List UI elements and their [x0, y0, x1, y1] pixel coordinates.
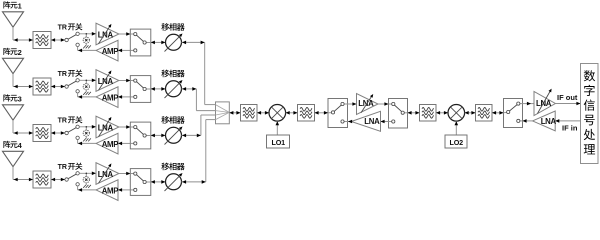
filter F8 (band-pass)	[476, 105, 493, 122]
svg-text:2: 2	[18, 48, 22, 57]
oscillator LO2	[445, 135, 467, 148]
wire: AMP A2b to TR switch SW2a	[78, 93, 96, 99]
wire: LNA A1a to switch SW1b	[119, 32, 130, 36]
wire: TR switch SW4a to LNA A4a	[79, 172, 96, 176]
svg-text:3: 3	[18, 94, 22, 103]
wire: switch SW2b to phase shifter PS2	[151, 87, 166, 91]
node: antenna label 阵元4	[3, 141, 22, 150]
wire: TR switch SW1a to LNA A1a	[79, 32, 96, 36]
op-amp AMP A2b (transmit)	[96, 87, 118, 108]
ground (row 4)	[83, 185, 91, 188]
svg-text:TR: TR	[58, 24, 67, 31]
wire: filter F3a to TR switch SW3a	[51, 131, 65, 135]
phase shifter PS4 (variable)	[165, 172, 184, 191]
filter F1a (band-pass)	[33, 32, 51, 49]
op-amp LNA A3a (variable gain)	[96, 116, 119, 138]
wire: filter F5 to mixer U6	[257, 111, 269, 115]
wire: filter F8 to switch SW7	[492, 111, 504, 115]
switch SW1a (SPDT TR switch)	[65, 32, 79, 46]
svg-text:LNA: LNA	[98, 31, 114, 40]
wire: antenna ANT4 stem	[12, 167, 14, 180]
node: label TR开关 (row 2)	[58, 70, 83, 78]
node: label TR开关 (row 1)	[58, 23, 83, 31]
wire: switch SW7 to LNA A7	[523, 102, 535, 106]
op-amp AMP A4b (transmit)	[96, 180, 118, 201]
phase shifter PS1 (variable)	[165, 32, 184, 51]
switch SW7 (SPDT)	[504, 99, 523, 128]
op-amp LNA A2a (variable gain)	[96, 70, 119, 92]
wire: LNA A5 to switch SW6	[378, 102, 389, 106]
wire: antenna ANT3 to filter F3a (bidirectional arrows)	[13, 131, 33, 135]
node: label 移相器 (row 4)	[161, 163, 184, 171]
wire: LNA A8 to switch SW7	[523, 119, 533, 123]
wire: TR switch SW2a to LNA A2a	[79, 79, 96, 83]
node: label 移相器 (row 3)	[161, 116, 184, 124]
wire: filter F4a to TR switch SW4a	[51, 178, 65, 182]
ground (row 1)	[83, 45, 91, 48]
svg-text:IF in: IF in	[562, 124, 578, 133]
switch SW6 (SPDT)	[389, 99, 408, 129]
op-amp LNA A6 (return path)	[351, 111, 380, 131]
wire: LNA A3a to switch SW3b	[119, 125, 130, 129]
mixer U7	[448, 105, 465, 122]
svg-text:TR: TR	[58, 117, 67, 124]
wire: antenna ANT2 to filter F2a (bidirectional arrows)	[13, 85, 33, 89]
svg-text:LNA: LNA	[98, 77, 114, 86]
svg-text:AMP: AMP	[102, 94, 119, 103]
switch SW5 (SPDT)	[328, 99, 348, 128]
wire: LNA A4a to switch SW4b	[119, 172, 130, 176]
switch SW3b (SPDT, LNA/AMP select)	[130, 122, 151, 149]
svg-text:TR: TR	[58, 164, 67, 171]
svg-text:AMP: AMP	[102, 187, 119, 196]
node: antenna label 阵元1	[3, 1, 21, 10]
svg-text:LNA: LNA	[98, 124, 114, 133]
op-amp LNA A1a (variable gain)	[96, 23, 119, 45]
wire: phase shifter PS1 to combiner (feed 1)	[182, 41, 216, 105]
wire: phase shifter PS3 to combiner (feed 3)	[182, 115, 216, 137]
switch SW1b (SPDT, LNA/AMP select)	[130, 29, 151, 56]
node: label TR开关 (row 3)	[58, 116, 83, 124]
mixer U6	[269, 105, 286, 122]
svg-text:LNA: LNA	[541, 117, 557, 126]
svg-text:1: 1	[18, 1, 22, 10]
wire: filter F2a to TR switch SW2a	[51, 85, 65, 89]
wire: switch SW4b to phase shifter PS4	[151, 180, 166, 184]
wire: filter F6 to switch SW5	[315, 111, 329, 115]
wire: antenna ANT2 stem	[12, 74, 14, 87]
op-amp AMP A1b (transmit)	[96, 40, 118, 61]
wire: AMP A3b to TR switch SW3a	[78, 140, 96, 146]
svg-text:LNA: LNA	[536, 99, 552, 108]
wire: mixer U7 to filter F8	[465, 111, 476, 115]
wire: antenna ANT1 to filter F1a (bidirectional arrows)	[13, 38, 33, 42]
phase shifter PS2 (variable)	[165, 79, 184, 98]
wire: switch SW4b to AMP A4b	[118, 188, 130, 192]
svg-text:AMP: AMP	[102, 47, 119, 56]
antenna ANT2	[3, 58, 24, 73]
svg-text:LNA: LNA	[364, 117, 380, 126]
wire: LNA A7 to DSP (IF out)	[555, 102, 580, 106]
node: antenna label 阵元3	[3, 94, 21, 103]
filter F6 (band-pass)	[298, 105, 315, 122]
phase shifter PS3 (variable)	[165, 125, 184, 144]
wire: combiner U5 to filter F5	[229, 111, 240, 115]
wire: mixer U6 to filter F6	[286, 111, 298, 115]
wire: DSP to LNA A8 (IF in)	[555, 119, 580, 123]
filter F5 (band-pass)	[241, 105, 258, 122]
wire: LNA A2a to switch SW2b	[119, 79, 130, 83]
node: label 移相器 (row 1)	[161, 23, 184, 31]
wire: LNA A6 to switch SW5	[348, 120, 353, 124]
node: label 移相器 (row 2)	[161, 70, 184, 78]
wire: antenna ANT3 stem	[12, 120, 14, 133]
svg-text:LNA: LNA	[358, 99, 374, 108]
node: label TR开关 (row 4)	[58, 163, 83, 171]
wire: TR switch SW3a to LNA A3a	[79, 125, 96, 129]
ground (row 3)	[83, 138, 91, 141]
svg-text:TR: TR	[58, 71, 67, 78]
switch SW2a (SPDT TR switch)	[65, 79, 79, 93]
wire: switch SW2b to AMP A2b	[118, 95, 130, 99]
switch SW4b (SPDT, LNA/AMP select)	[130, 169, 151, 196]
wire: AMP A1b to TR switch SW1a	[78, 47, 96, 53]
limiter D4 to ground	[83, 173, 89, 186]
svg-text:AMP: AMP	[102, 140, 119, 149]
wire: switch SW3b to phase shifter PS3	[151, 134, 166, 138]
wire: antenna ANT4 to filter F4a (bidirectional arrows)	[13, 178, 33, 182]
svg-text:IF out: IF out	[557, 93, 578, 102]
wire: phase shifter PS2 to combiner (feed 2)	[182, 87, 216, 111]
antenna ANT3	[3, 105, 24, 120]
wire: switch SW3b to AMP A3b	[118, 142, 130, 146]
filter F2a (band-pass)	[33, 78, 51, 95]
wire: switch SW6 to filter F7	[408, 111, 420, 115]
wire: switch SW5 to LNA A5	[348, 102, 357, 106]
antenna ANT1	[3, 12, 24, 27]
antenna ANT4	[3, 151, 24, 166]
svg-text:LNA: LNA	[98, 170, 114, 179]
wire: switch SW1b to AMP A1b	[118, 49, 130, 53]
wire: AMP A4b to TR switch SW4a	[78, 186, 96, 192]
digital signal processor 数字信号处理	[581, 64, 599, 164]
filter F4a (band-pass)	[33, 171, 51, 188]
wire: filter F7 to mixer U7	[436, 111, 448, 115]
switch SW2b (SPDT, LNA/AMP select)	[130, 76, 151, 103]
op-amp LNA A7 (IF out, variable gain)	[534, 88, 555, 116]
wire: LO1 to mixer U6	[276, 121, 280, 135]
switch SW4a (SPDT TR switch)	[65, 172, 79, 186]
svg-text:LO2: LO2	[450, 138, 464, 147]
op-amp LNA A5 (variable gain)	[357, 93, 379, 114]
wire: filter F1a to TR switch SW1a	[51, 38, 65, 42]
filter F3a (band-pass)	[33, 125, 51, 142]
op-amp LNA A8 (IF in)	[533, 111, 557, 131]
ground (row 2)	[83, 92, 91, 95]
limiter D1 to ground	[83, 33, 89, 46]
combiner/divider U5 (4:1)	[216, 102, 230, 124]
wire: switch SW1b to phase shifter PS1	[151, 41, 166, 45]
svg-text:LO1: LO1	[272, 138, 286, 147]
node: antenna label 阵元2	[3, 48, 21, 57]
switch SW3a (SPDT TR switch)	[65, 125, 79, 139]
wire: LO2 to mixer U7	[455, 121, 459, 135]
op-amp AMP A3b (transmit)	[96, 133, 118, 154]
limiter D2 to ground	[83, 80, 89, 93]
filter F7 (band-pass)	[420, 105, 437, 122]
oscillator LO1	[267, 135, 290, 148]
wire: phase shifter PS4 to combiner (feed 4)	[182, 120, 216, 184]
op-amp LNA A4a (variable gain)	[96, 163, 119, 185]
wire: antenna ANT1 stem	[12, 27, 14, 40]
limiter D3 to ground	[83, 126, 89, 139]
wire: switch SW6 to LNA A6	[381, 120, 389, 124]
